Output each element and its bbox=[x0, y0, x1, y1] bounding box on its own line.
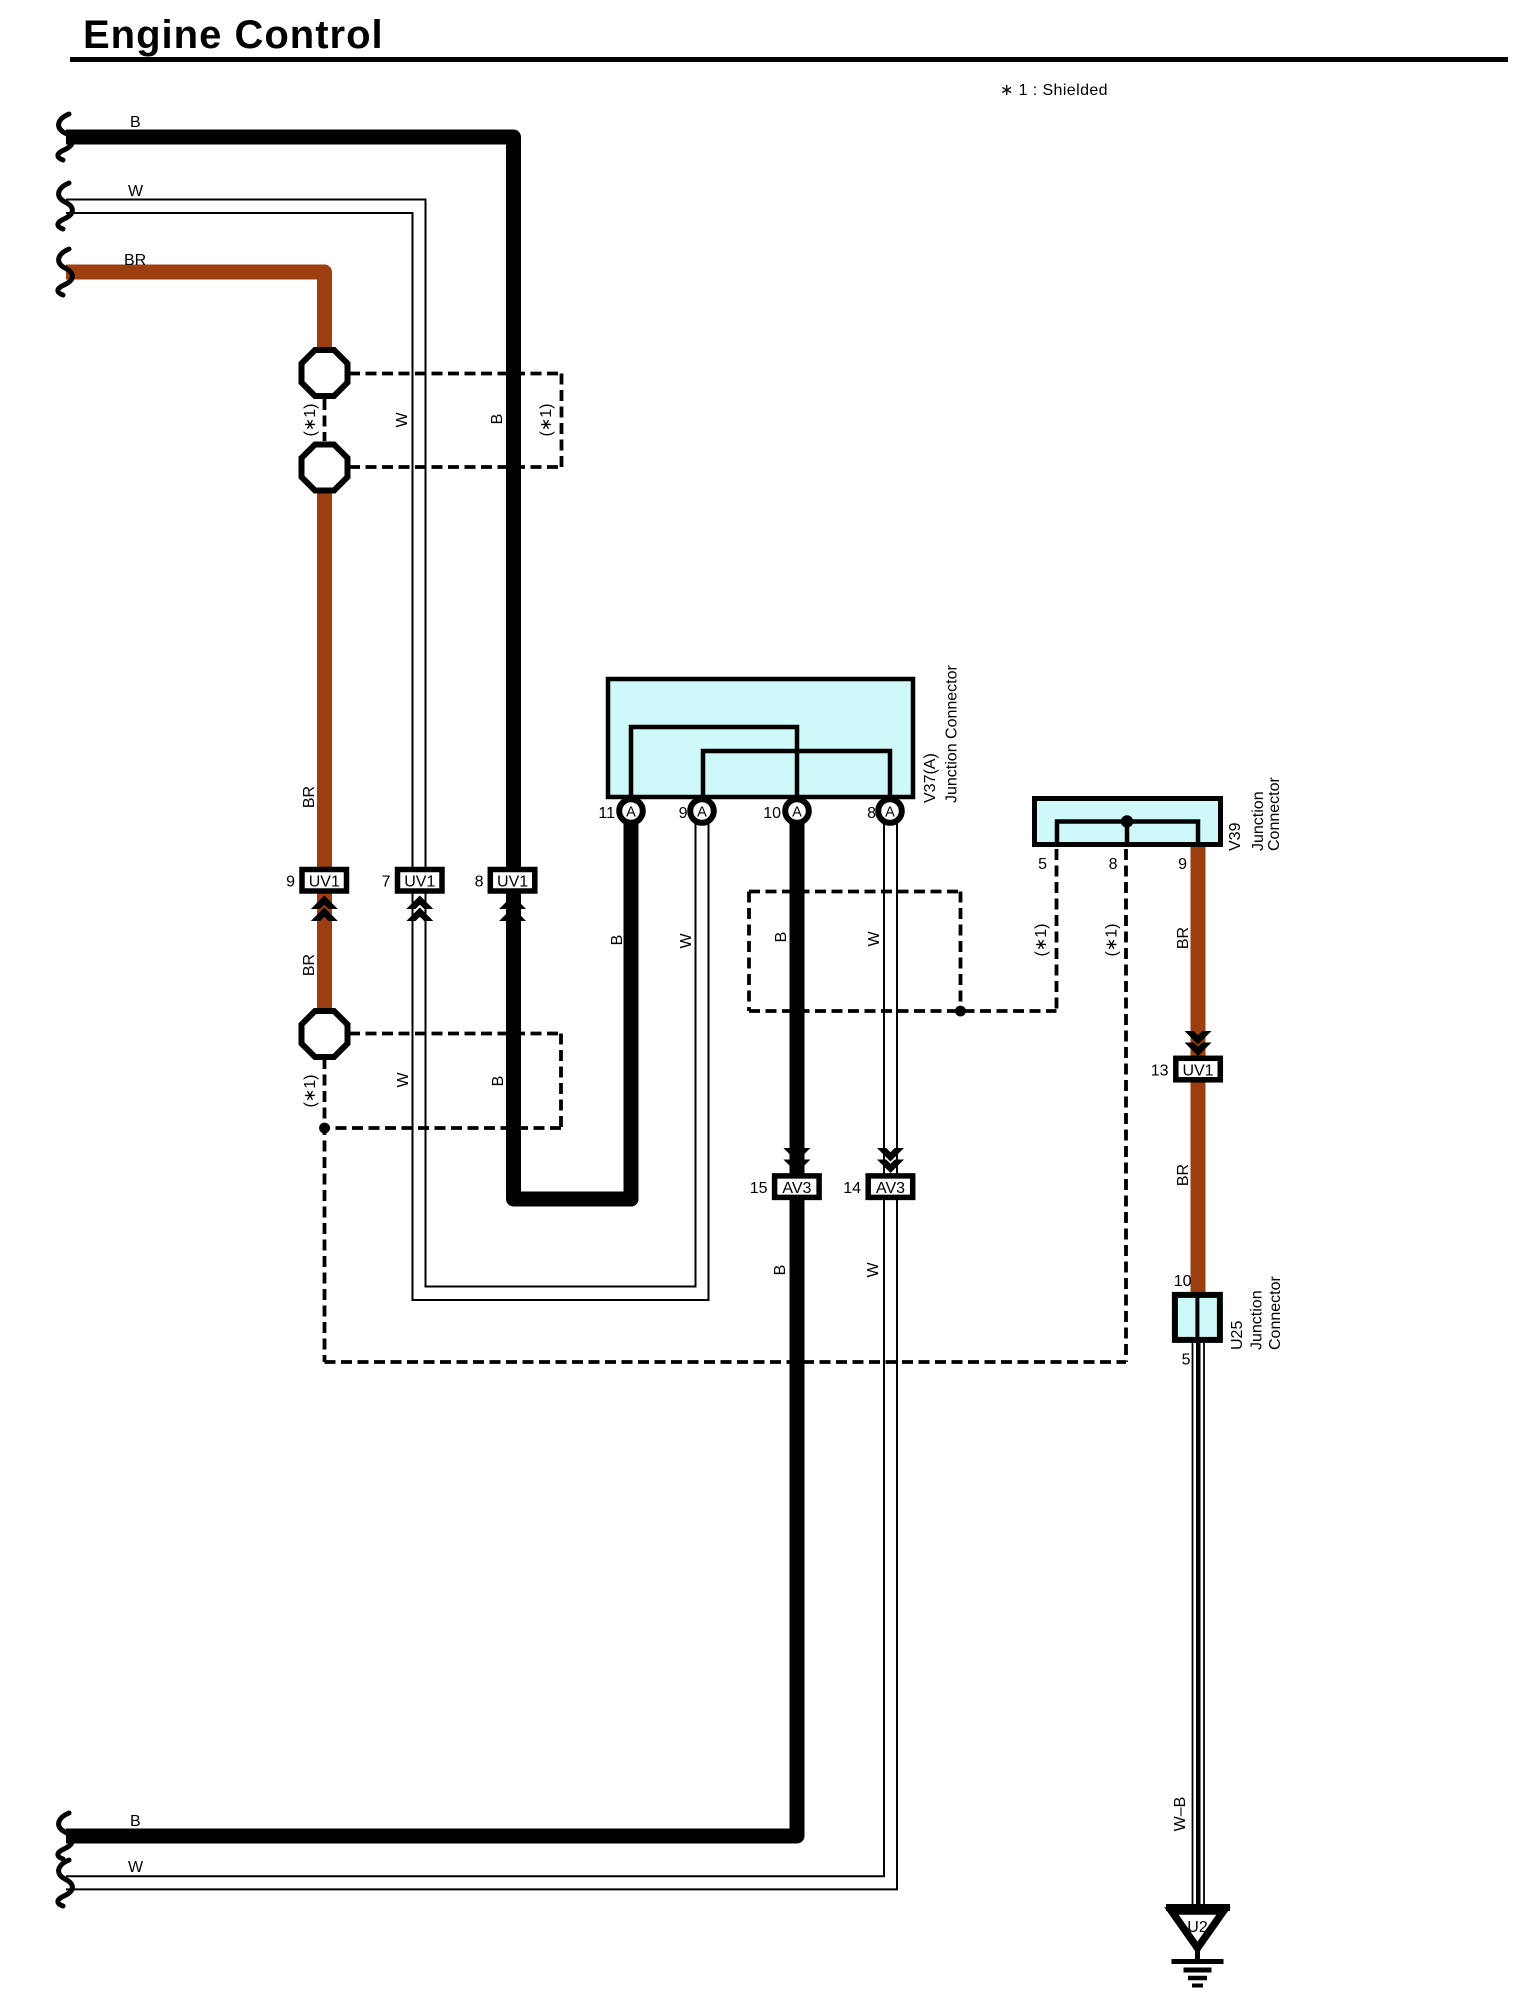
connector UV1 pin 7 box bbox=[398, 870, 443, 892]
connector UV1 pin 8 box bbox=[490, 870, 535, 892]
arrow chevrons above UV1 13 bbox=[1185, 1031, 1212, 1056]
svg-text:15: 15 bbox=[750, 1180, 768, 1197]
svg-text:U2: U2 bbox=[1187, 1919, 1208, 1936]
svg-text:(∗1): (∗1) bbox=[1104, 924, 1121, 957]
shield dashed right vertical bbox=[560, 374, 564, 468]
svg-text:9: 9 bbox=[1178, 856, 1187, 873]
svg-text:AV3: AV3 bbox=[876, 1180, 905, 1197]
junction connector V37(A) body bbox=[608, 679, 913, 797]
wire BR (from left break down to shield octagons) bbox=[66, 272, 325, 355]
wire W (V37(A) pin 8 down through AV3 14 to bottom-left break) inner line bbox=[66, 815, 884, 1876]
node (dot inside V39) bbox=[1121, 815, 1133, 827]
svg-text:Junction Connector: Junction Connector bbox=[944, 664, 961, 803]
wire break squiggle W top bbox=[58, 183, 73, 229]
shield dashed from octagon 3 down to node and long run down bbox=[323, 1058, 327, 1362]
connector UV1 pin 13 box bbox=[1176, 1058, 1221, 1080]
shield octagon 3 bbox=[302, 1011, 348, 1057]
svg-text:(∗1): (∗1) bbox=[1033, 924, 1050, 957]
wire W-B (U25 pin 5 down to ground U2) left thin line bbox=[1192, 1343, 1194, 1905]
shield dashed rect right (mid) bbox=[959, 892, 963, 1012]
connector UV1 pin 9 box bbox=[302, 870, 347, 892]
wire BR (between octagon 2 and connector UV1 pin 9) bbox=[317, 487, 332, 869]
svg-text:10: 10 bbox=[1174, 1273, 1192, 1290]
ground U2 top bar bbox=[1166, 1904, 1230, 1911]
ground hatch line 1 bbox=[1172, 1959, 1224, 1964]
junction connector V39 body bbox=[1035, 799, 1221, 845]
svg-text:W: W bbox=[394, 412, 411, 428]
shield dashed vertical up to V39 pin 8 bbox=[1124, 849, 1128, 1362]
V37(A) internal bus pins 11-10 bbox=[631, 727, 797, 797]
svg-text:W: W bbox=[128, 183, 144, 200]
svg-text:BR: BR bbox=[301, 954, 318, 976]
ground hatch line 2 bbox=[1184, 1968, 1212, 1973]
U25 divider bbox=[1195, 1292, 1199, 1343]
arrow chevrons above AV3 15 bbox=[783, 1148, 810, 1173]
svg-text:B: B bbox=[772, 1265, 789, 1276]
ground hatch line 4 bbox=[1192, 1984, 1203, 1988]
shield link between octagon 1 and octagon 2 bbox=[323, 399, 327, 441]
svg-text:A: A bbox=[792, 805, 802, 821]
V37(A) pin 11 terminal A bbox=[619, 799, 643, 823]
V37(A) internal bus pins 9-8 bbox=[703, 751, 890, 797]
arrow chevrons below UV1 7 bbox=[406, 896, 433, 922]
wire B (top, from left break to V37(A) pin 11) bbox=[66, 137, 631, 1199]
shield dashed from octagon 3 right bbox=[349, 1032, 561, 1036]
svg-text:W–B: W–B bbox=[1172, 1797, 1189, 1832]
svg-text:∗ 1 : Shielded: ∗ 1 : Shielded bbox=[1000, 82, 1108, 99]
wire break squiggle B top bbox=[58, 114, 73, 160]
svg-text:A: A bbox=[885, 805, 895, 821]
svg-text:V39: V39 bbox=[1227, 822, 1244, 851]
shield dashed rect top (mid) bbox=[749, 890, 961, 894]
svg-text:5: 5 bbox=[1038, 856, 1047, 873]
V37(A) pin 10 terminal A bbox=[785, 799, 809, 823]
shield octagon 2 bbox=[302, 445, 348, 491]
svg-text:U25: U25 bbox=[1229, 1321, 1246, 1350]
svg-text:B: B bbox=[130, 1813, 141, 1830]
svg-text:UV1: UV1 bbox=[309, 874, 340, 891]
svg-text:B: B bbox=[489, 414, 506, 425]
arrow chevrons below UV1 8 bbox=[499, 896, 526, 922]
svg-text:UV1: UV1 bbox=[404, 874, 435, 891]
svg-text:Connector: Connector bbox=[1266, 777, 1283, 851]
arrow chevrons below UV1 9 bbox=[311, 896, 338, 922]
node (junction dot below octagon 3) bbox=[319, 1123, 330, 1134]
svg-text:B: B bbox=[490, 1076, 507, 1087]
connector AV3 pin 14 box bbox=[868, 1176, 913, 1198]
svg-text:Engine Control: Engine Control bbox=[83, 13, 384, 57]
wire W-B center black stripe bbox=[1196, 1343, 1201, 1905]
wire W (pin 8) outer line bbox=[66, 815, 897, 1889]
svg-text:(∗1): (∗1) bbox=[302, 1075, 319, 1108]
svg-text:BR: BR bbox=[124, 252, 146, 269]
svg-text:7: 7 bbox=[382, 874, 391, 891]
svg-text:W: W bbox=[395, 1072, 412, 1088]
svg-text:UV1: UV1 bbox=[1182, 1062, 1213, 1079]
svg-text:UV1: UV1 bbox=[497, 874, 528, 891]
svg-text:W: W bbox=[128, 1859, 144, 1876]
svg-text:9: 9 bbox=[679, 805, 688, 822]
svg-text:BR: BR bbox=[301, 786, 318, 808]
node (junction dot mid shield) bbox=[955, 1006, 966, 1017]
connector AV3 pin 15 box bbox=[775, 1176, 820, 1198]
svg-text:10: 10 bbox=[763, 805, 781, 822]
shield octagon 1 bbox=[302, 350, 348, 396]
wire W (top) inner line bbox=[66, 213, 709, 1300]
title Engine Control bbox=[70, 13, 1508, 62]
ground hatch line 3 bbox=[1188, 1976, 1207, 1981]
svg-text:AV3: AV3 bbox=[782, 1180, 811, 1197]
svg-text:11: 11 bbox=[598, 805, 615, 822]
svg-text:(∗1): (∗1) bbox=[538, 404, 555, 437]
wire B (V37(A) pin 10 down through AV3 15 to bottom-left break) bbox=[66, 815, 797, 1836]
V39 internal bus branch to pin 8 bbox=[1125, 822, 1130, 846]
svg-text:A: A bbox=[697, 805, 707, 821]
svg-text:(∗1): (∗1) bbox=[302, 404, 319, 437]
V37(A) pin 8 terminal A bbox=[878, 799, 902, 823]
svg-text:8: 8 bbox=[1109, 856, 1118, 873]
svg-text:5: 5 bbox=[1182, 1352, 1191, 1369]
svg-text:Connector: Connector bbox=[1267, 1276, 1284, 1350]
wire BR (below UV1 pin 9 to octagon 3) bbox=[317, 892, 332, 1016]
svg-text:9: 9 bbox=[286, 874, 295, 891]
shield dashed long bottom horizontal bbox=[325, 1360, 1127, 1364]
arrow chevrons above AV3 14 bbox=[877, 1148, 904, 1173]
junction connector U25 body bbox=[1175, 1295, 1220, 1340]
svg-text:BR: BR bbox=[1175, 1164, 1192, 1186]
svg-text:13: 13 bbox=[1151, 1062, 1169, 1079]
svg-text:B: B bbox=[609, 935, 626, 946]
svg-text:Junction: Junction bbox=[1249, 1290, 1266, 1350]
V37(A) pin 9 terminal A bbox=[690, 799, 714, 823]
wire W-B right thin line bbox=[1203, 1343, 1205, 1905]
wire W (top, from left break to V37(A) pin 9) outer line bbox=[66, 200, 696, 1287]
wire BR (V39 pin 9 down through UV1 13 to U25 pin 10) bbox=[1191, 845, 1206, 1296]
SHIELD DASHED LINES bbox=[325, 374, 1127, 1363]
svg-text:W: W bbox=[865, 1262, 882, 1278]
svg-text:Junction: Junction bbox=[1250, 791, 1267, 851]
svg-text:B: B bbox=[130, 114, 141, 131]
shield dashed bottom (octagon 2 to right) bbox=[349, 465, 562, 469]
svg-text:14: 14 bbox=[843, 1180, 861, 1197]
shield dashed top (octagon 1 to right) bbox=[349, 372, 562, 376]
svg-text:W: W bbox=[866, 931, 883, 947]
svg-text:W: W bbox=[678, 933, 695, 949]
svg-text:8: 8 bbox=[867, 805, 876, 822]
ground stem bbox=[1195, 1948, 1200, 1962]
wire break squiggle B bottom bbox=[58, 1813, 73, 1859]
svg-text:V37(A): V37(A) bbox=[922, 753, 939, 803]
svg-text:BR: BR bbox=[1175, 927, 1192, 949]
V39 internal bus pins 5-9 bbox=[1057, 822, 1198, 846]
wire break squiggle W bottom bbox=[58, 1860, 73, 1906]
svg-text:A: A bbox=[626, 805, 636, 821]
shield dashed rect bottom to V39 pin 5 line bbox=[749, 1009, 1057, 1013]
shield dashed horizontal back to node bbox=[325, 1126, 562, 1130]
shield dashed vertical right of octagon 3 bbox=[559, 1034, 563, 1129]
shield dashed vertical V39 pin 5 down bbox=[1055, 849, 1059, 1011]
shield dashed rect left (mid) bbox=[747, 892, 751, 1012]
ground U2 triangle bbox=[1172, 1911, 1224, 1948]
svg-text:B: B bbox=[773, 932, 790, 943]
wire break squiggle BR bbox=[58, 249, 73, 295]
svg-text:8: 8 bbox=[475, 874, 484, 891]
